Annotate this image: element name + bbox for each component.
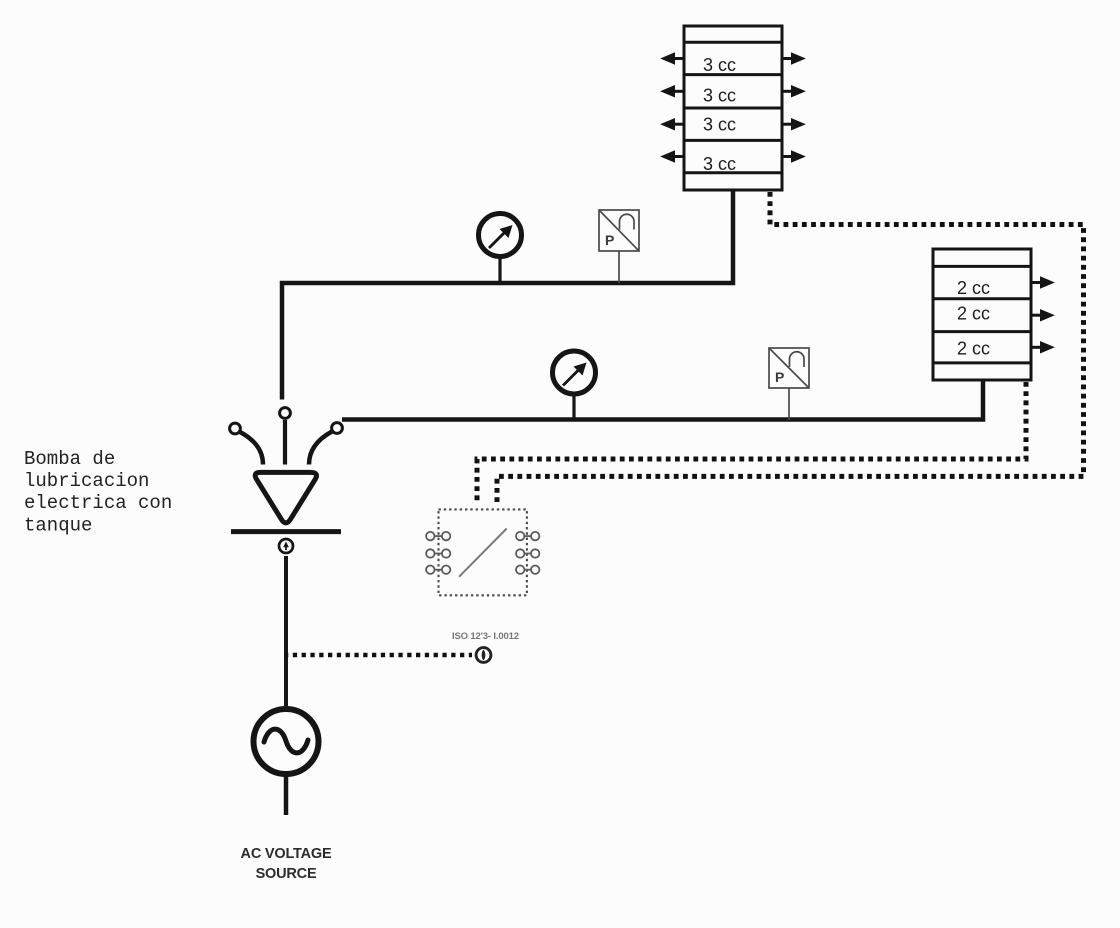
controller box K1 (dashed) <box>439 509 527 595</box>
dotted signal wire B: DB1 to controller <box>497 192 1084 502</box>
svg-text:Bomba de: Bomba de <box>24 448 115 470</box>
pump top port node <box>280 408 291 419</box>
svg-text:electrica con: electrica con <box>24 492 172 514</box>
divider block DB1 (4 x 3cc metering unit) <box>684 26 782 190</box>
DB2 value labels 2 cc <box>957 278 990 359</box>
svg-text:lubricacion: lubricacion <box>24 470 149 492</box>
controller terminals left <box>426 532 450 574</box>
svg-text:2 cc: 2 cc <box>957 278 990 298</box>
AC voltage source V1 <box>254 709 319 774</box>
svg-text:SOURCE: SOURCE <box>256 866 317 882</box>
check valve node under pump <box>279 539 293 553</box>
pump center inlet line <box>283 420 287 465</box>
controller terminals right <box>516 532 539 574</box>
pump left outlet curve <box>240 432 263 465</box>
svg-text:2 cc: 2 cc <box>957 339 990 359</box>
svg-text:3 cc: 3 cc <box>703 55 736 75</box>
svg-text:3 cc: 3 cc <box>703 115 736 135</box>
wire: DB1 inlet down, main line 1 left, down to pump <box>282 190 733 400</box>
svg-text:P: P <box>775 369 784 385</box>
svg-text:3 cc: 3 cc <box>703 154 736 174</box>
svg-text:ISO 12'3- I.0012: ISO 12'3- I.0012 <box>452 631 519 642</box>
controller diagonal lever <box>459 529 507 577</box>
divider block DB2 (3 x 2cc metering unit) <box>933 249 1031 380</box>
dotted signal wire C: pump column to sensor node <box>284 653 472 657</box>
wire: AC source bottom stub <box>284 774 289 815</box>
pressure switch PS2 <box>769 348 809 420</box>
svg-text:AC VOLTAGE: AC VOLTAGE <box>241 846 332 862</box>
svg-text:2 cc: 2 cc <box>957 304 990 324</box>
pressure gauge G1 <box>479 214 522 285</box>
svg-text:tanque: tanque <box>24 515 92 537</box>
pump P1: electric lubrication pump with tank <box>230 408 343 532</box>
pump base bar <box>231 529 341 534</box>
DB1 value labels 3 cc <box>703 55 736 174</box>
dotted signal wire A: DB2 to controller <box>477 382 1026 502</box>
pump triangle (tank funnel) <box>255 472 316 523</box>
svg-text:P: P <box>605 232 614 248</box>
sensor node S1 (circle with droplet) <box>476 648 491 663</box>
pump left port node <box>230 423 241 434</box>
pressure gauge G2 <box>553 351 596 421</box>
DB1 outlet arrows right <box>782 55 802 161</box>
DB2 outlet arrows right <box>1031 279 1051 352</box>
DB1 outlet arrows left <box>664 55 684 161</box>
label Bomba de lubricacion electrica con tanque <box>24 448 172 537</box>
pressure switch PS1 <box>599 210 639 283</box>
svg-text:3 cc: 3 cc <box>703 86 736 106</box>
wire: pump to AC source <box>284 556 288 706</box>
label AC VOLTAGE SOURCE <box>241 846 332 882</box>
wire: main line 2 from pump right port to DB2 <box>342 381 983 420</box>
pump right outlet curve <box>309 432 332 465</box>
pump right port node <box>332 423 343 434</box>
